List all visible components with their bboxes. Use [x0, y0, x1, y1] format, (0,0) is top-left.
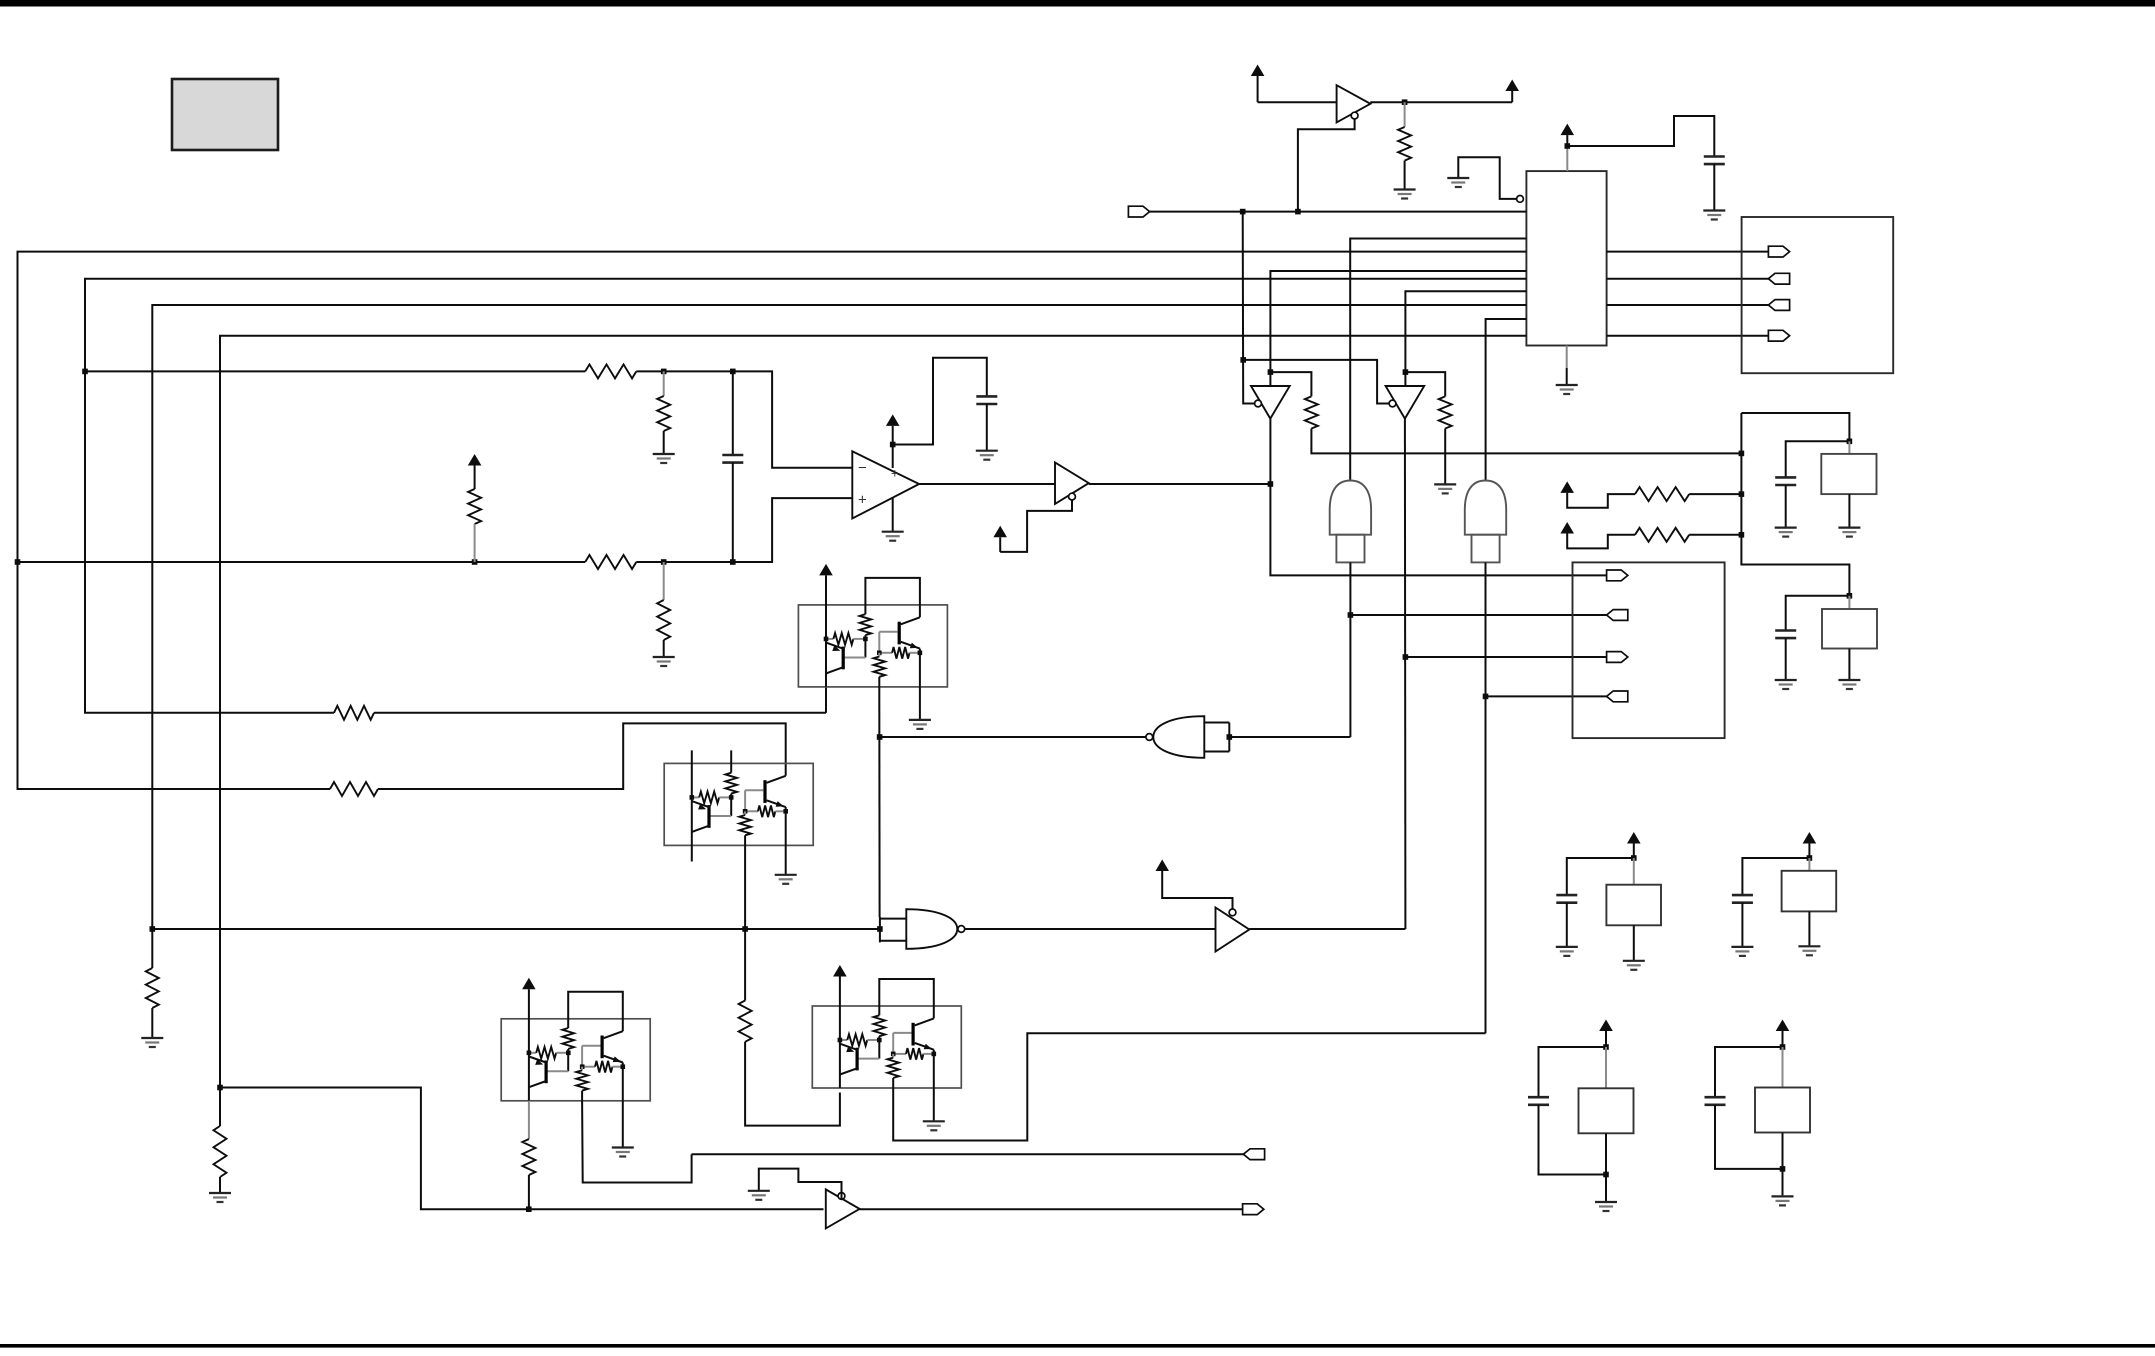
wire (osc B) — [1742, 858, 1809, 895]
node (Q-block 2) — [690, 795, 695, 800]
resistor (upper vertical) (Q-block 3) — [562, 1028, 574, 1049]
capacitor C5 — [1775, 631, 1796, 639]
ground (R12) — [1434, 484, 1456, 493]
resistor (lower vertical) (Q-block 4) — [887, 1054, 899, 1078]
node — [1268, 481, 1274, 487]
node (Q-block 3) — [566, 1051, 571, 1056]
wire (U2 to J1) — [1607, 304, 1769, 306]
ground (osc B) — [1731, 947, 1753, 956]
wire (X1 bottom) — [1349, 562, 1351, 737]
wire (Q-block 3) — [622, 1063, 624, 1101]
wire (to J2 port2) — [1350, 614, 1606, 616]
wire (U3 V+ to C3) — [893, 358, 987, 445]
ground (Y1) — [1838, 528, 1860, 537]
wire (Q-block 1) — [878, 677, 880, 687]
ground (C5) — [1775, 680, 1797, 689]
resistor (left horizontal) (Q-block 1) — [826, 633, 865, 645]
wire (vcc feed) (Q-block 3) — [528, 989, 530, 1101]
wire — [636, 498, 852, 562]
ground (Q-block3) — [612, 1148, 634, 1157]
transistor-pair block box (Q-block 4) — [812, 1006, 961, 1088]
wire (U9 enable) — [1162, 871, 1232, 909]
power VCC arrow (osc B) — [1560, 522, 1574, 534]
svg-text:+: + — [858, 492, 867, 509]
wire (osc B) — [1741, 903, 1743, 946]
wire (bus C) — [152, 305, 1526, 968]
inverter U5 — [1251, 386, 1290, 419]
output port P3 — [1243, 1149, 1264, 1160]
wire (U7 inputs tie) — [1229, 736, 1350, 738]
wire (U2 to J1) — [1607, 278, 1769, 280]
node — [1295, 209, 1301, 215]
port (J2 in) — [1607, 691, 1628, 702]
node — [15, 559, 21, 565]
ground (R1) — [1394, 190, 1416, 199]
capacitor C4 — [1775, 477, 1796, 485]
output port P2 — [1243, 1204, 1264, 1215]
wire (Q-block1 R4 to NAND bus) — [878, 687, 880, 917]
indicator X1 — [1330, 481, 1371, 563]
wire (U2 ground pin) — [1566, 346, 1568, 385]
node — [661, 559, 667, 565]
node — [217, 1085, 223, 1091]
ground (Q-block2) — [775, 875, 797, 884]
wire (input to U5) — [1243, 212, 1255, 404]
node (Q-block 1) — [863, 637, 868, 642]
wire (U3 output) — [919, 483, 1055, 485]
port (J2 out) — [1607, 652, 1628, 663]
wire (U10 enable) — [759, 1169, 842, 1200]
wire (Q-block3 emitter gnd) — [622, 1101, 624, 1147]
NAND gate U7 (left-facing) — [1146, 716, 1229, 758]
power VCC arrow (buffer U1 input) — [1251, 65, 1265, 103]
crystal Y2 — [1822, 596, 1877, 679]
resistor R13 — [1635, 487, 1689, 501]
resistor (left horizontal) (Q-block 4) — [840, 1034, 879, 1046]
inverter U6 — [1386, 386, 1425, 419]
ground (X3) — [1623, 961, 1645, 970]
wire — [1689, 493, 1741, 495]
resistor R14 — [1635, 528, 1689, 542]
node (Q-block 2) — [729, 795, 734, 800]
power VCC arrow (osc C) — [1599, 1020, 1613, 1048]
wire (R11 to crystal block) — [1311, 429, 1741, 454]
wire (op-amp plus path upper) — [85, 370, 585, 372]
wire (long out) — [692, 1153, 1244, 1155]
power VCC arrow (osc D) — [1776, 1020, 1790, 1048]
resistor R10 — [214, 1126, 227, 1192]
node (Q-block 3) — [580, 1064, 585, 1069]
resistor (lower vertical) (Q-block 1) — [874, 653, 886, 677]
wire (loop) (Q-block 3) — [568, 992, 623, 1031]
ground (R5) — [653, 657, 675, 666]
power VCC arrow (Q-block 4) — [833, 965, 847, 977]
wire (loop) (Q-block 4) — [879, 979, 934, 1018]
wire — [1689, 534, 1741, 536]
power VCC arrow (U4 enable) — [993, 526, 1007, 552]
wire (R15 to Q-block4) — [745, 1042, 840, 1126]
oscillator (osc C) — [1579, 1047, 1634, 1175]
node — [150, 926, 156, 932]
wire (Q-block 2) — [744, 835, 746, 845]
wire (Q-block2 R4 down) — [744, 845, 746, 1000]
wire (osc D) — [1715, 1047, 1783, 1097]
node (Q-block 4) — [891, 1052, 896, 1057]
node — [1240, 209, 1246, 215]
port (J2 out) — [1607, 570, 1628, 581]
node — [1739, 491, 1745, 497]
wire (X2 bottom) — [1485, 562, 1487, 1033]
ground (C1) — [1703, 211, 1725, 220]
svg-text:−: − — [858, 460, 867, 477]
ground (osc C) — [1595, 1202, 1617, 1211]
node (Q-block 4) — [932, 1052, 937, 1057]
resistor R7 (to ground) — [657, 371, 670, 453]
transistor-pair block box (Q-block 3) — [501, 1019, 650, 1101]
power VCC arrow (osc B) — [1803, 832, 1817, 858]
power VCC arrow (Q-block 3) — [522, 978, 536, 989]
transistor Q2 (Q-block 4) — [893, 1018, 934, 1054]
wire — [1258, 101, 1337, 103]
resistor (right horizontal) (Q-block 2) — [745, 806, 786, 818]
resistor (upper vertical) (Q-block 4) — [874, 1015, 886, 1036]
wire (Q-block3 pin1) — [528, 1101, 530, 1139]
ground (osc A) — [1556, 947, 1578, 956]
node — [890, 442, 896, 448]
wire (osc D) — [1715, 1105, 1783, 1169]
wire (U3 V+) — [892, 445, 894, 469]
wire (NAND input bus) — [152, 928, 879, 930]
wire (U4 enable) — [1000, 500, 1072, 552]
wire (U3 V-) — [892, 498, 894, 531]
resistor (lower vertical) (Q-block 3) — [576, 1067, 588, 1091]
capacitor (osc D) — [1705, 1097, 1726, 1105]
wire — [1785, 638, 1787, 679]
capacitor (osc A) — [1556, 895, 1577, 903]
wire (Q-block2 emitter gnd) — [785, 845, 787, 874]
wire (to C4) — [1786, 441, 1850, 477]
wire (U5 output to J2) — [1270, 419, 1606, 576]
wire (vcc feed) (Q-block 1) — [825, 575, 827, 687]
resistor (left horizontal) (Q-block 2) — [692, 792, 731, 804]
node — [526, 1206, 532, 1212]
node — [1348, 612, 1354, 618]
wire — [528, 1175, 530, 1209]
node (osc A) — [1631, 855, 1637, 861]
transistor Q1 (Q-block 4) — [840, 1044, 859, 1075]
inverted pin bubble (U2) — [1517, 196, 1524, 203]
NAND gate U8 (right-facing) — [880, 909, 965, 949]
wire (stub) (Q-block 2) — [691, 750, 693, 861]
node (U1 out junction) — [1402, 99, 1408, 105]
tri-state buffer U1 — [1337, 85, 1371, 122]
port (J2 in) — [1607, 610, 1628, 621]
title block (gray box) — [172, 79, 278, 150]
ground (osc D) — [1772, 1196, 1794, 1205]
node — [82, 369, 88, 375]
wire (base link Q1) (Q-block 1) — [845, 635, 866, 657]
wire (U2 pin to U6) — [1405, 291, 1526, 386]
wire (loop) (Q-block 1) — [865, 578, 920, 617]
wire (Q-block4 emitter gnd) — [933, 1088, 935, 1120]
wire (osc A) — [1566, 903, 1568, 946]
resistor R3 — [585, 555, 636, 569]
wire (U7 output) — [880, 736, 1146, 738]
transistor Q2 (Q-block 2) — [745, 776, 786, 812]
node (Q-block 2) — [743, 809, 748, 814]
ground (X4) — [1798, 946, 1820, 955]
wire — [1713, 164, 1715, 210]
capacitor C2 (across inputs) — [722, 371, 743, 562]
power VCC arrow (osc A) — [1560, 481, 1574, 493]
node (Q-block 1) — [918, 651, 923, 656]
wire (U1 enable) — [1298, 119, 1355, 212]
wire — [1567, 493, 1635, 508]
node — [877, 926, 883, 932]
wire (U6 output) — [1404, 419, 1407, 929]
ground (C3) — [976, 451, 998, 460]
resistor (upper vertical) (Q-block 2) — [725, 773, 737, 794]
wire (bus A) — [18, 252, 1527, 789]
node — [1739, 532, 1745, 538]
oscillator (osc D) — [1755, 1047, 1810, 1169]
power VCC arrow (U9) — [1156, 860, 1170, 872]
wire (U2 vcc to C1) — [1567, 116, 1714, 157]
port (J1 in) — [1768, 300, 1789, 311]
node — [1739, 451, 1745, 457]
node — [1847, 593, 1853, 599]
wire (to C5) — [1786, 596, 1850, 631]
resistor (right horizontal) (Q-block 4) — [893, 1048, 934, 1060]
wire (to U6 bubble) — [1243, 360, 1389, 404]
node — [1483, 694, 1489, 700]
node — [1227, 734, 1233, 740]
ground (R9) — [141, 1038, 163, 1047]
capacitor C1 — [1704, 157, 1725, 165]
node — [742, 926, 748, 932]
wire (U1 output) — [1370, 101, 1512, 103]
wire (osc C) — [1605, 1175, 1607, 1202]
node — [1268, 369, 1274, 375]
node — [1847, 439, 1853, 445]
wire (base link Q1) (Q-block 2) — [710, 794, 731, 816]
resistor (right horizontal) (Q-block 3) — [582, 1061, 623, 1073]
port (J1 out) — [1768, 330, 1789, 341]
resistor (left horizontal) (Q-block 3) — [529, 1047, 568, 1059]
ground (U2 test pin) — [1447, 157, 1516, 199]
wire (to J2 port4) — [1486, 695, 1607, 697]
port (J1 out) — [1768, 246, 1789, 257]
resistor R11 — [1270, 372, 1318, 428]
wire (input net) — [1150, 211, 1527, 213]
node (Q-block 3) — [527, 1051, 532, 1056]
resistor R1 (pull-down on U1 out) — [1398, 102, 1411, 188]
wire (bus D) — [220, 336, 1526, 1126]
resistor (upper vertical) (Q-block 1) — [860, 614, 872, 635]
resistor R4 — [468, 489, 481, 562]
tri-state buffer U4 — [1055, 462, 1089, 504]
wire (U2 pin to U5) — [1270, 271, 1526, 386]
node — [730, 369, 736, 375]
wire — [1785, 485, 1787, 527]
resistor R2 (bus A series) — [330, 782, 378, 796]
node (Q-block 1) — [877, 651, 882, 656]
tri-state buffer U9 — [1216, 908, 1250, 952]
power VCC arrow (R4) — [468, 454, 482, 489]
node (U2 vcc) — [1565, 143, 1571, 149]
wire (Q-block 3) — [581, 1091, 583, 1101]
wire (vcc feed) (Q-block 4) — [839, 977, 841, 1089]
wire (osc A) — [1567, 858, 1634, 895]
port (J1 in) — [1768, 273, 1789, 284]
ground (U10 enable) — [748, 1191, 770, 1200]
oscillator X4 — [1782, 858, 1837, 945]
wire — [986, 404, 988, 450]
wire (Q-block 4) — [933, 1050, 935, 1088]
node (osc D) — [1780, 1044, 1786, 1050]
ground (U3) — [882, 532, 904, 541]
power VCC arrow (U2) — [1561, 124, 1575, 172]
connector J2 — [1573, 562, 1725, 738]
wire (U2 pin to X1) — [1350, 239, 1526, 481]
wire — [220, 1088, 824, 1210]
capacitor (osc B) — [1732, 895, 1753, 903]
wire (U2 to J1) — [1607, 335, 1769, 337]
node (osc C) — [1603, 1044, 1609, 1050]
node (osc D) — [1780, 1166, 1786, 1172]
ground (Y2) — [1838, 680, 1860, 689]
transistor Q1 (Q-block 1) — [826, 643, 845, 674]
wire (Q-block1 emitter gnd) — [919, 687, 921, 719]
transistor-pair block box (Q-block 1) — [798, 605, 947, 687]
wire (op-amp minus path lower) — [18, 561, 586, 563]
ground (Q-block4) — [923, 1121, 945, 1130]
node — [730, 559, 736, 565]
indicator X2 — [1465, 481, 1506, 563]
wire (Q-block 1) — [919, 649, 921, 687]
tri-state buffer U10 — [826, 1189, 860, 1228]
power VCC arrow (U1 output) — [1505, 80, 1519, 103]
resistor R6 — [585, 364, 636, 378]
wire (U2 pin to X2) — [1486, 319, 1527, 481]
power VCC arrow (U3) — [886, 414, 900, 444]
connector J1 — [1742, 217, 1894, 373]
ground (C4) — [1775, 528, 1797, 537]
wire (Q-block4 R4 out) — [893, 1033, 1485, 1140]
power VCC arrow (osc A) — [1627, 832, 1641, 858]
wire (U8 output) — [965, 928, 1216, 930]
node — [472, 559, 478, 565]
wire (stub) (Q-block 2) — [730, 750, 732, 772]
node — [877, 734, 883, 740]
ground (R10) — [209, 1193, 231, 1202]
transistor Q2 (Q-block 1) — [879, 617, 920, 653]
resistor (right horizontal) (Q-block 1) — [879, 647, 920, 659]
crystal Y1 — [1821, 441, 1876, 526]
resistor R9 — [146, 968, 159, 1037]
wire (to J2 port3) — [1405, 656, 1606, 658]
bottom border bar — [0, 1344, 2155, 1348]
wire — [374, 687, 826, 713]
transistor Q2 (Q-block 3) — [582, 1031, 623, 1067]
node (Q-block 1) — [824, 637, 829, 642]
resistor R12 — [1405, 372, 1451, 483]
power VCC arrow (Q-block 1) — [819, 564, 833, 576]
transistor Q1 (Q-block 2) — [692, 801, 711, 832]
resistor R16 — [522, 1139, 535, 1175]
oscillator X3 — [1606, 858, 1661, 960]
op-amp U3 — [852, 451, 919, 518]
wire (osc D) — [1782, 1169, 1784, 1196]
node — [1403, 654, 1409, 660]
wire (Q-block 4) — [892, 1078, 894, 1088]
capacitor C3 — [976, 396, 997, 404]
node (osc B) — [1807, 855, 1813, 861]
node (Q-block 2) — [783, 809, 788, 814]
resistor R15 — [739, 1001, 752, 1042]
resistor R8 (bus B series) — [334, 706, 374, 720]
wire (crystal bus vertical) — [1741, 413, 1849, 441]
node — [661, 369, 667, 375]
wire (Q-block3 R4 out) — [582, 1101, 692, 1183]
top border bar — [0, 0, 2155, 7]
transistor-pair block box (Q-block 2) — [664, 763, 813, 845]
input port P1 — [1128, 206, 1149, 217]
node — [1240, 357, 1246, 363]
wire — [1741, 413, 1849, 596]
ground (Q-block1) — [909, 720, 931, 729]
ground (R7) — [653, 454, 675, 463]
transistor Q1 (Q-block 3) — [529, 1057, 548, 1088]
wire — [378, 723, 786, 789]
IC U2 — [1526, 171, 1606, 345]
wire (osc C) — [1539, 1047, 1607, 1097]
wire (U2 to J1) — [1607, 251, 1769, 253]
wire (base link Q1) (Q-block 3) — [548, 1049, 569, 1071]
node (Q-block 3) — [621, 1064, 626, 1069]
node (Q-block 4) — [838, 1038, 843, 1043]
wire (U10 output) — [860, 1208, 1243, 1210]
wire (U4 out) — [1089, 483, 1271, 485]
wire (base link Q1) (Q-block 4) — [859, 1036, 880, 1058]
capacitor (osc C) — [1528, 1097, 1549, 1105]
resistor (lower vertical) (Q-block 2) — [739, 811, 751, 835]
wire (bus B) — [85, 279, 1526, 713]
node (osc C) — [1603, 1172, 1609, 1178]
wire (Q-block 2) — [785, 807, 787, 845]
node (Q-block 4) — [877, 1038, 882, 1043]
resistor R5 (to ground) — [657, 562, 670, 656]
wire (osc C) — [1539, 1105, 1607, 1175]
node — [1403, 369, 1409, 375]
wire (U9 out) — [1249, 928, 1405, 930]
ground (U2) — [1556, 385, 1578, 394]
wire — [1567, 534, 1635, 549]
wire — [636, 371, 852, 467]
